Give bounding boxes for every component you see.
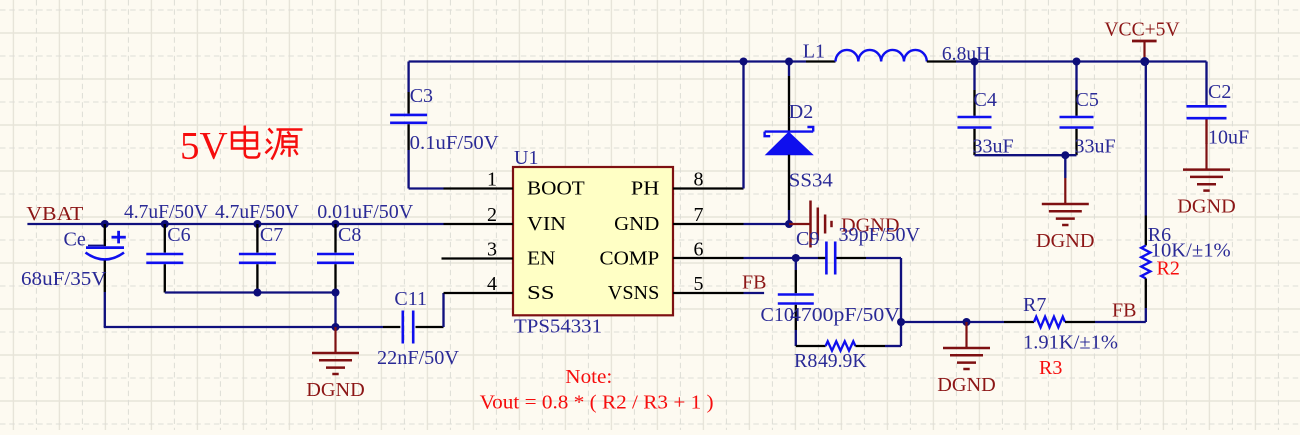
wire C11 to SS pin [442, 293, 444, 327]
net label FB at divider [1112, 300, 1136, 322]
ground DGND under C8 [306, 327, 365, 401]
capacitor C2 10uF [1187, 62, 1250, 149]
capacitor C11 22nF/50V [377, 288, 460, 369]
pin 1 [444, 187, 514, 189]
wire PH riser [742, 62, 744, 189]
pin 2 [444, 223, 514, 225]
node C7 bottom junction [253, 289, 261, 297]
svg-text:0.01uF/50V: 0.01uF/50V [317, 201, 414, 223]
svg-text:BOOT: BOOT [527, 177, 585, 199]
wire C6-C8 bottoms [165, 291, 336, 293]
svg-text:C10: C10 [761, 304, 794, 326]
svg-text:EN: EN [527, 247, 556, 269]
svg-text:VIN: VIN [527, 213, 566, 235]
wire FB to R7 [901, 321, 1004, 323]
svg-text:33uF: 33uF [973, 135, 1014, 157]
pin 8 [673, 187, 744, 189]
capacitor C9 39pF/50V [796, 224, 921, 275]
svg-text:FB: FB [1112, 300, 1136, 322]
svg-text:R8: R8 [794, 350, 817, 372]
svg-text:R3: R3 [1039, 357, 1062, 379]
svg-text:10uF: 10uF [1208, 127, 1249, 149]
wire C9/R8 right side [900, 258, 902, 346]
svg-text:COMP: COMP [600, 247, 660, 269]
node FB junction [897, 318, 905, 326]
node VBAT-Ce junction [101, 220, 109, 228]
wire GND pin to D2 anode [744, 223, 790, 225]
svg-text:5V: 5V [180, 125, 228, 168]
node C7 junction [253, 220, 261, 228]
svg-text:C9: C9 [796, 228, 819, 250]
svg-text:TPS54331: TPS54331 [514, 316, 602, 338]
svg-text:R7: R7 [1023, 294, 1046, 316]
resistor R7 1.91K [1004, 294, 1118, 379]
svg-text:C5: C5 [1076, 89, 1099, 111]
node FB ground junction [963, 318, 971, 326]
svg-text:4700pF/50V: 4700pF/50V [790, 304, 901, 326]
svg-text:Note:: Note: [565, 366, 612, 388]
wire C8 bottom to rail [334, 293, 336, 328]
svg-text:DGND: DGND [1036, 230, 1095, 252]
capacitor Ce (electrolytic) 68uF/35V [21, 224, 126, 292]
svg-text:R2: R2 [1157, 258, 1180, 280]
svg-text:FB: FB [742, 272, 766, 294]
node PH-top junction [740, 58, 748, 66]
svg-text:4.7uF/50V: 4.7uF/50V [124, 201, 209, 223]
svg-text:39pF/50V: 39pF/50V [839, 224, 921, 246]
svg-text:DGND: DGND [1177, 196, 1236, 218]
pin 6 [673, 257, 744, 259]
node C4 top junction [971, 58, 979, 66]
svg-text:L1: L1 [803, 41, 825, 63]
wire R7 to R6 [1095, 321, 1146, 323]
wire C4-C5 bottoms [975, 154, 1077, 156]
net label FB at VSNS [742, 272, 766, 294]
svg-text:C7: C7 [260, 224, 283, 246]
wire C3 to BOOT [407, 150, 409, 189]
svg-text:U1: U1 [514, 147, 538, 169]
ground DGND rotated at GND pin [789, 201, 900, 248]
wire L1 to output [956, 60, 1207, 62]
svg-text:Vout = 0.8 * ( R2 / R3 + 1 ): Vout = 0.8 * ( R2 / R3 + 1 ) [480, 392, 714, 414]
pin 4 [444, 292, 514, 294]
svg-text:DGND: DGND [306, 379, 365, 401]
svg-text:SS: SS [527, 282, 555, 304]
wire COMP [744, 257, 796, 259]
node rail-DGND junction [332, 323, 340, 331]
capacitor C3 0.1uF/50V [390, 62, 499, 155]
pin 5 [673, 292, 744, 294]
ground DGND under C2 [1177, 144, 1236, 218]
capacitor C8 0.01uF/50V [317, 201, 414, 293]
capacitor C5 33uF [1060, 62, 1116, 158]
svg-text:68uF/35V: 68uF/35V [21, 268, 107, 290]
svg-text:VBAT: VBAT [26, 203, 83, 225]
node VCC junction [1140, 57, 1149, 66]
capacitor C10 4700pF/50V [761, 258, 901, 346]
capacitor C6 4.7uF/50V [124, 201, 209, 293]
pin 7 [673, 223, 744, 225]
capacitor C4 33uF [958, 62, 1014, 158]
svg-text:C2: C2 [1208, 81, 1231, 103]
capacitor C7 4.7uF/50V [215, 201, 300, 293]
svg-text:0.1uF/50V: 0.1uF/50V [410, 132, 500, 154]
svg-text:4.7uF/50V: 4.7uF/50V [215, 201, 300, 223]
svg-text:33uF: 33uF [1075, 135, 1116, 157]
ground DGND under C4/C5 [1036, 155, 1095, 252]
diode D2 SS34 schottky [765, 62, 833, 225]
svg-text:D2: D2 [789, 101, 813, 123]
svg-text:C4: C4 [974, 89, 997, 111]
note text [480, 366, 714, 414]
svg-text:49.9K: 49.9K [818, 350, 867, 372]
svg-text:Ce: Ce [64, 229, 86, 251]
svg-text:SS34: SS34 [789, 170, 833, 192]
svg-text:PH: PH [631, 177, 659, 199]
node C8 junction [332, 220, 340, 228]
node COMP junction [792, 254, 800, 262]
svg-text:C8: C8 [338, 224, 361, 246]
wire bottom rail [104, 292, 106, 327]
wire VBAT to VIN [27, 223, 443, 225]
wire top PH net [409, 60, 806, 62]
inductor L1 6.8uH [803, 41, 991, 66]
svg-text:VCC+5V: VCC+5V [1104, 19, 1180, 41]
svg-text:22nF/50V: 22nF/50V [377, 347, 460, 369]
resistor R8 49.9K [794, 341, 901, 372]
svg-text:VSNS: VSNS [608, 282, 660, 304]
ground DGND at FB divider [937, 322, 996, 396]
node C8 bottom junction [332, 289, 340, 297]
power port VBAT [26, 203, 83, 225]
title 5V power [180, 125, 303, 168]
power port VCC+5V [1104, 19, 1180, 62]
svg-text:C6: C6 [167, 224, 190, 246]
svg-text:DGND: DGND [937, 374, 996, 396]
node D2 top junction [785, 58, 793, 66]
node C5 top junction [1073, 58, 1081, 66]
op-amp U1 TPS54331 regulator [487, 147, 704, 338]
resistor R6 10K [1141, 62, 1231, 323]
svg-text:C3: C3 [410, 85, 433, 107]
pin 3 [442, 257, 514, 259]
node C4C5 gnd junction [1061, 151, 1069, 159]
svg-text:C11: C11 [394, 288, 427, 310]
node GND-D2 junction [785, 220, 793, 228]
svg-text:GND: GND [614, 213, 659, 235]
svg-text:1.91K/±1%: 1.91K/±1% [1023, 332, 1118, 354]
node C6 junction [161, 220, 169, 228]
